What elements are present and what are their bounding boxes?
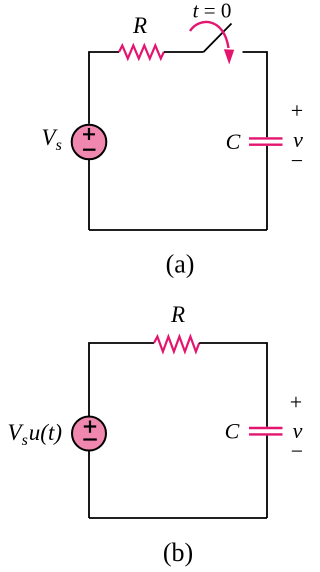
svg-text:R: R	[170, 302, 185, 327]
switch blade (opens at t=0, circuit a)	[204, 24, 232, 53]
svg-text:C: C	[225, 419, 240, 444]
svg-text:Vs: Vs	[42, 125, 62, 154]
svg-text:(a): (a)	[166, 250, 195, 279]
voltage source Vs (circuit a)	[72, 125, 107, 160]
wire: resistor to top-right corner down to capacitor (circuit b)	[199, 343, 267, 427]
svg-text:+: +	[290, 390, 302, 415]
voltage source Vs u(t) (circuit b)	[72, 417, 106, 451]
wire: source bottom to bottom-left corner (circuit a)	[88, 160, 90, 231]
wire: source bottom to bottom-left corner (circuit b)	[88, 451, 90, 518]
wire: circuit (b) top-left segment and left vertical down to source	[89, 343, 154, 417]
wire: capacitor bottom to bottom-right corner (circuit a)	[266, 146, 268, 230]
wire: capacitor bottom to bottom-right corner (circuit b)	[266, 436, 268, 518]
svg-text:−: −	[291, 439, 303, 464]
svg-text:C: C	[226, 129, 241, 154]
resistor R (circuit a)	[119, 46, 164, 59]
wire: bottom of circuit (a)	[89, 229, 267, 231]
wire: circuit (a) top-left segment and left vertical down to source	[89, 52, 119, 124]
capacitor C plates (circuit b)	[249, 428, 283, 434]
resistor R (circuit b)	[154, 337, 199, 352]
svg-text:t = 0: t = 0	[193, 0, 232, 23]
wire: resistor to switch left contact (circuit a)	[164, 51, 204, 53]
wire: switch right contact to top-right corner down to capacitor (circuit a)	[243, 52, 268, 137]
svg-text:+: +	[291, 98, 303, 123]
switch closing arrow (pink arc with arrowhead)	[190, 22, 234, 64]
capacitor C plates (circuit a)	[249, 138, 283, 144]
svg-text:(b): (b)	[163, 538, 193, 567]
svg-text:R: R	[132, 13, 147, 38]
svg-text:Vsu(t): Vsu(t)	[8, 420, 63, 449]
wire: bottom of circuit (b)	[89, 517, 267, 519]
svg-text:−: −	[291, 148, 303, 173]
